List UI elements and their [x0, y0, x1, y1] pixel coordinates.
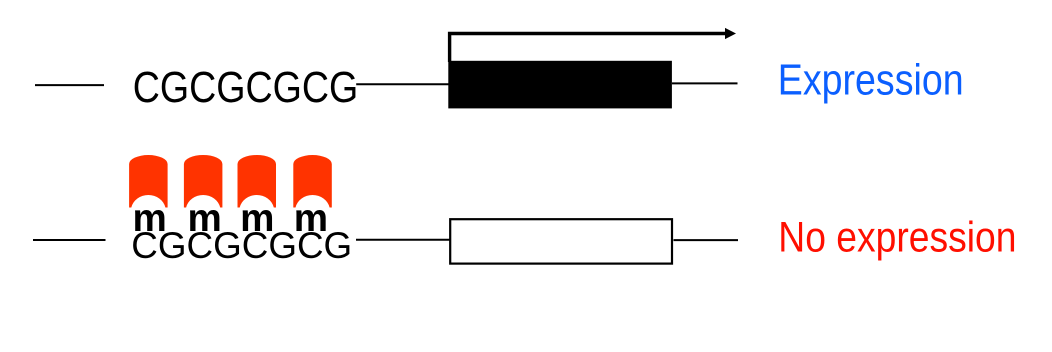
wire top text to gene box	[356, 83, 449, 85]
wire bottom text to gene box	[356, 239, 450, 241]
methyl group cap 1	[129, 155, 168, 207]
methyl group cap 2	[184, 155, 223, 207]
svg-text:No expression: No expression	[778, 213, 1016, 260]
svg-text:CGCGCGCG: CGCGCGCG	[133, 64, 359, 112]
wire bottom-left DNA line	[33, 239, 106, 241]
wire top-left DNA line	[35, 84, 104, 86]
methyl group cap 3	[238, 155, 277, 207]
wire gene box to right (top)	[672, 82, 738, 84]
gene box empty (silenced gene)	[450, 219, 672, 263]
svg-text:CGCGCGCG: CGCGCGCG	[131, 224, 352, 266]
svg-text:Expression: Expression	[778, 56, 964, 104]
methyl group cap 4	[293, 155, 332, 207]
transcription start arrow	[450, 34, 726, 63]
wire gene box to right (bottom)	[674, 239, 739, 241]
gene box filled (active gene)	[448, 61, 672, 109]
